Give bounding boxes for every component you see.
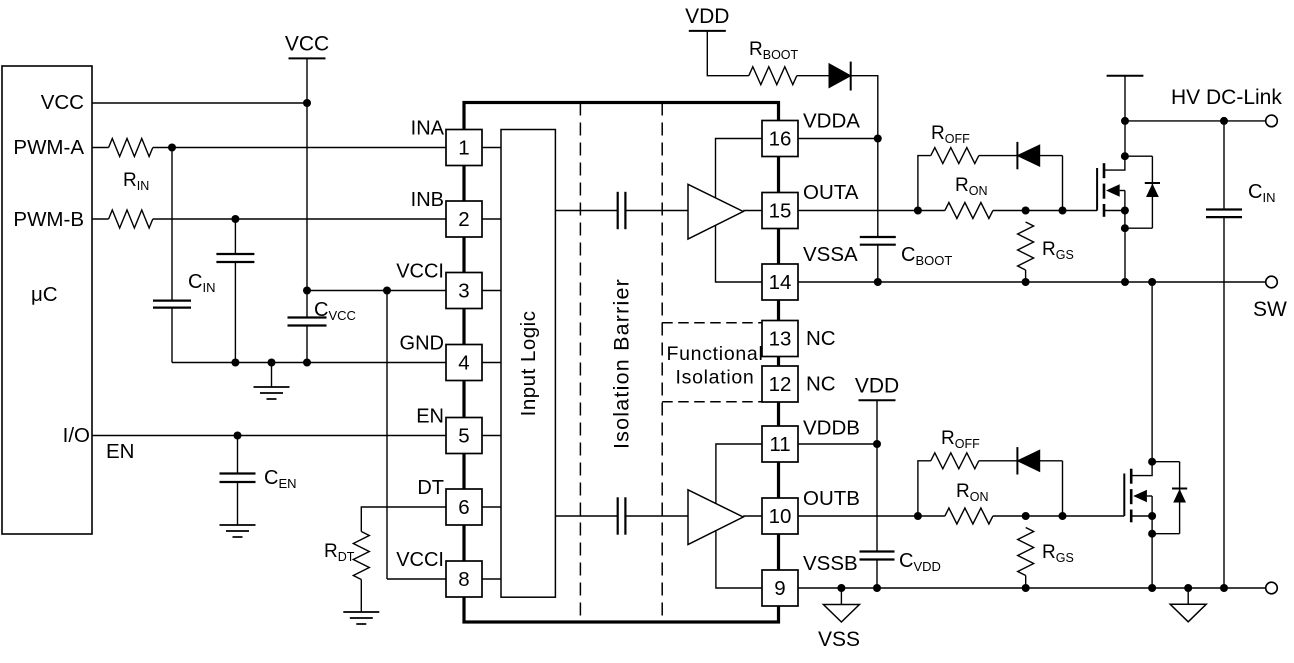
isolation barrier dashed line (right) — [661, 103, 663, 623]
wire PWM-A to pin INA — [153, 147, 446, 149]
svg-text:VSSA: VSSA — [803, 243, 858, 266]
node R_GS A to SW — [1022, 278, 1030, 286]
capacitor isolation channel B — [618, 497, 626, 534]
driver buffer A — [688, 184, 743, 239]
label NC pin 13 — [806, 327, 836, 350]
svg-text:VDDB: VDDB — [803, 417, 860, 440]
resistor R_ON (B) — [945, 508, 993, 524]
wire OUTB from pin 10 to gate network — [798, 515, 1124, 517]
svg-text:Functional: Functional — [667, 343, 764, 365]
wire Q2 source down to bottom rail — [1151, 534, 1153, 588]
wire channel A signal to barrier — [555, 210, 617, 212]
svg-text:VDD: VDD — [855, 374, 899, 397]
svg-text:4: 4 — [458, 352, 469, 375]
svg-text:INB: INB — [411, 189, 444, 211]
svg-text:OUTA: OUTA — [803, 181, 859, 204]
node Q1 source to SW — [1121, 278, 1129, 286]
node Q2 drain to SW — [1148, 278, 1156, 286]
svg-text:10: 10 — [769, 505, 792, 528]
capacitor C_EN — [220, 436, 256, 526]
resistor R_ON (A) — [945, 203, 993, 219]
pin 9 (VSSB) box — [762, 552, 858, 606]
resistor R_GS (A) — [1018, 222, 1034, 282]
ground symbol (logic side) — [254, 363, 290, 400]
svg-text:2: 2 — [458, 208, 469, 231]
label EN net — [106, 440, 134, 463]
svg-text:DT: DT — [417, 477, 444, 499]
node Q1 drain to HV rail — [1121, 117, 1129, 125]
label R_BOOT — [749, 39, 799, 62]
svg-text:6: 6 — [458, 496, 469, 519]
pin 1 (INA) box — [411, 118, 482, 166]
label R_DT — [324, 541, 355, 564]
microcontroller block uC — [2, 66, 92, 534]
wire driver B output to pin 10 — [743, 515, 762, 517]
terminal bar Q1 drain — [1107, 76, 1144, 121]
wire pin 11 VDDB to node — [798, 443, 877, 445]
node C_IN DC-link top — [1220, 117, 1228, 125]
driver buffer B — [688, 490, 743, 545]
label HV DC-Link — [1171, 86, 1282, 109]
label C_BOOT — [901, 244, 952, 268]
wire VCCI vertical branch down to pin 8 — [387, 291, 446, 580]
svg-text:VCC: VCC — [41, 91, 84, 114]
wire channel A barrier to driver — [625, 210, 688, 212]
capacitor C_IN (PWM-B branch) — [216, 219, 254, 363]
wire R_OFF B to D_OFF B — [979, 460, 1018, 462]
node C_EN junction — [234, 432, 242, 440]
pin 6 (DT) box — [417, 477, 482, 525]
pin 13 (NC) box — [762, 321, 798, 357]
ground symbol (R_DT) — [343, 612, 379, 624]
node R_GS A junction — [1022, 207, 1030, 215]
node gate A diode junction — [1059, 207, 1067, 215]
wire diode to VDDA node — [851, 76, 878, 139]
wire VDD to R_BOOT — [707, 31, 749, 76]
capacitor isolation channel A — [618, 192, 626, 229]
svg-text:HV DC-Link: HV DC-Link — [1171, 86, 1282, 109]
wire D_OFF B branch down — [1062, 461, 1064, 516]
svg-text:16: 16 — [769, 128, 792, 151]
input logic block — [501, 130, 555, 598]
svg-text:Isolation Barrier: Isolation Barrier — [609, 278, 633, 449]
svg-text:15: 15 — [769, 200, 792, 223]
label R_GS (A) — [1042, 239, 1074, 262]
terminal HV DC-Link — [1266, 115, 1278, 127]
svg-text:SW: SW — [1253, 298, 1287, 321]
svg-text:1: 1 — [458, 137, 469, 160]
wire pin 16 feed to driver A — [716, 139, 763, 199]
VDD supply rail symbol (channel B) — [855, 374, 899, 400]
node OUTB branch R_OFF — [914, 512, 922, 520]
wires pin stubs to input logic — [482, 148, 501, 580]
terminal bottom rail — [1266, 582, 1278, 594]
wire R_BOOT to diode — [797, 75, 829, 77]
pin 2 (INB) box — [411, 189, 482, 237]
ground marker VSS — [823, 588, 859, 622]
wire pin 11 feed to driver B — [716, 444, 762, 504]
MOSFET Q2 (low side) with body diode — [1124, 458, 1187, 538]
wire channel B barrier to driver — [625, 515, 688, 517]
svg-text:VCCI: VCCI — [396, 261, 444, 283]
svg-text:13: 13 — [769, 328, 792, 351]
pin 10 (OUTB) box — [762, 487, 860, 534]
node C_VCC to GND — [303, 359, 311, 367]
wire HV DC-Link rail — [1125, 120, 1266, 122]
node C_IN-B to GND — [231, 359, 239, 367]
wire R_OFF B branch up — [918, 461, 931, 516]
wire bottom power rail from pin 9 — [798, 587, 1266, 589]
pin 8 (VCCI) box — [396, 549, 482, 597]
node Q2 source to rail — [1148, 584, 1156, 592]
wire driver A output to pin 15 — [743, 210, 762, 212]
svg-text:11: 11 — [769, 433, 790, 456]
node gate B diode junction — [1059, 512, 1067, 520]
svg-text:Input Logic: Input Logic — [517, 310, 540, 416]
pin 11 (VDDB) box — [762, 417, 860, 463]
wire VDD B down to pin 11 line — [876, 400, 878, 444]
label C_VCC — [314, 299, 356, 323]
capacitor C_VDD — [860, 444, 895, 588]
svg-text:I/O: I/O — [63, 424, 90, 447]
wire pin 16 VDDA to node — [798, 138, 878, 140]
node power ground stub — [1184, 584, 1192, 592]
svg-text:GND: GND — [400, 333, 444, 355]
node PWM-B filter junction — [231, 215, 239, 223]
svg-text:VCC: VCC — [285, 32, 329, 55]
wire EN from I/O to pin 5 — [92, 435, 446, 437]
node C_VDD bottom — [873, 584, 881, 592]
diode D_OFF (B) — [1017, 447, 1062, 474]
label Isolation Barrier — [609, 278, 633, 449]
wire SW rail from pin 14 — [798, 281, 1266, 283]
svg-text:INA: INA — [411, 118, 445, 140]
label R_ON (A) — [955, 175, 987, 198]
label R_ON (B) — [956, 481, 988, 504]
svg-text:EN: EN — [106, 440, 134, 463]
svg-text:PWM-B: PWM-B — [13, 208, 84, 231]
wire VCC from uC to rail stub — [92, 102, 307, 104]
resistor R_OFF (B) — [931, 453, 979, 469]
wire GND net line — [172, 362, 446, 364]
node VCC column to VCCI — [303, 287, 311, 295]
resistor R_OFF (A) — [931, 148, 979, 164]
label NC pin 12 — [806, 373, 836, 396]
svg-text:12: 12 — [769, 373, 792, 396]
capacitor C_IN (PWM-A branch) — [153, 148, 191, 363]
node VSS stub — [837, 584, 845, 592]
capacitor C_VCC — [288, 291, 327, 363]
resistor R_IN (PWM-A) — [92, 139, 153, 157]
terminal SW — [1266, 276, 1278, 288]
VDD supply rail symbol (bootstrap) — [685, 5, 729, 31]
wire pin 14 feed to driver A — [716, 225, 763, 282]
node R_GS B bottom — [1022, 584, 1030, 592]
label VSS — [818, 628, 860, 651]
wire Q2 drain up to SW rail — [1151, 282, 1153, 462]
pin 14 (VSSA) box — [762, 243, 858, 300]
resistor R_BOOT — [749, 67, 797, 85]
label R_GS (B) — [1042, 542, 1074, 565]
MOSFET Q1 (high side) with body diode — [1097, 152, 1160, 232]
svg-text:8: 8 — [458, 568, 469, 591]
label Functional Isolation — [667, 343, 764, 389]
label R_OFF (B) — [941, 428, 980, 451]
svg-text:PWM-A: PWM-A — [13, 136, 84, 159]
label R_OFF (A) — [931, 123, 970, 146]
pin 3 (VCCI) box — [396, 261, 482, 309]
svg-text:9: 9 — [774, 577, 785, 600]
isolation barrier dashed line (left) — [579, 103, 581, 623]
label C_VDD — [899, 550, 941, 574]
VCC supply rail symbol — [285, 32, 329, 58]
svg-text:NC: NC — [806, 327, 836, 350]
wire DT from R_DT to pin 6 — [361, 507, 446, 532]
node C_IN DC-link bottom — [1220, 584, 1228, 592]
wire VCCI line from VCC column to pin 3 — [307, 290, 446, 292]
node VDDA — [874, 135, 882, 143]
svg-text:μC: μC — [31, 283, 58, 306]
wire R_OFF to D_OFF — [979, 155, 1018, 157]
pin 16 (VDDA) box — [762, 110, 860, 157]
wire OUTA from pin 15 to gate network — [798, 210, 1097, 212]
ground symbol (C_EN) — [220, 525, 256, 537]
node VDDB — [873, 440, 881, 448]
resistor R_IN (PWM-B) — [92, 210, 153, 228]
svg-text:14: 14 — [769, 271, 792, 294]
node ground stub junction — [268, 359, 276, 367]
svg-text:VDDA: VDDA — [803, 110, 860, 133]
label C_IN (input filters) — [188, 271, 215, 295]
svg-text:5: 5 — [458, 425, 469, 448]
resistor R_GS (B) — [1018, 528, 1034, 589]
node C_BOOT to VSSA — [874, 278, 882, 286]
wire R_OFF branch up — [918, 156, 931, 211]
svg-text:OUTB: OUTB — [803, 487, 860, 510]
svg-text:EN: EN — [416, 406, 444, 428]
wire Q1 drain up to HV rail — [1124, 121, 1126, 156]
svg-text:3: 3 — [458, 280, 469, 303]
label C_EN — [264, 467, 297, 491]
wire D_OFF branch down to gate node — [1062, 156, 1064, 211]
wire pin 9 feed to driver B — [716, 531, 762, 589]
node OUTA branch R_OFF — [914, 207, 922, 215]
resistor R_DT — [353, 532, 369, 613]
pin 4 (GND) box — [400, 333, 482, 381]
pin 5 (EN) box — [416, 406, 482, 454]
pin 12 (NC) box — [762, 366, 798, 402]
node PWM-A filter junction — [168, 144, 176, 152]
wire Q1 source down to SW rail — [1124, 228, 1126, 282]
pin 15 (OUTA) box — [762, 181, 859, 229]
ground marker (power stage) — [1170, 588, 1206, 622]
diode D_OFF (A) — [1017, 142, 1062, 169]
node VCC junction — [303, 99, 311, 107]
svg-text:VSS: VSS — [818, 628, 860, 651]
label R_IN — [123, 170, 149, 193]
capacitor C_IN (DC-link) — [1206, 121, 1242, 588]
label SW — [1253, 298, 1287, 321]
label C_IN (DC-link) — [1248, 181, 1275, 205]
svg-text:NC: NC — [806, 373, 836, 396]
diode D_BOOT — [829, 62, 851, 91]
wire channel B signal to barrier — [555, 515, 617, 517]
wire VCC vertical down to VCCI line — [306, 58, 308, 290]
svg-text:VDD: VDD — [685, 5, 729, 28]
gate driver IC body outline — [464, 103, 779, 623]
wire PWM-B to pin INB — [153, 218, 446, 220]
svg-text:VCCI: VCCI — [396, 549, 444, 571]
capacitor C_BOOT — [860, 139, 896, 283]
svg-text:Isolation: Isolation — [676, 367, 755, 389]
functional isolation dashed box — [662, 323, 762, 402]
svg-text:VSSB: VSSB — [803, 552, 858, 575]
node VCCI branch to pin 8 — [383, 287, 391, 295]
node R_GS B junction — [1022, 512, 1030, 520]
